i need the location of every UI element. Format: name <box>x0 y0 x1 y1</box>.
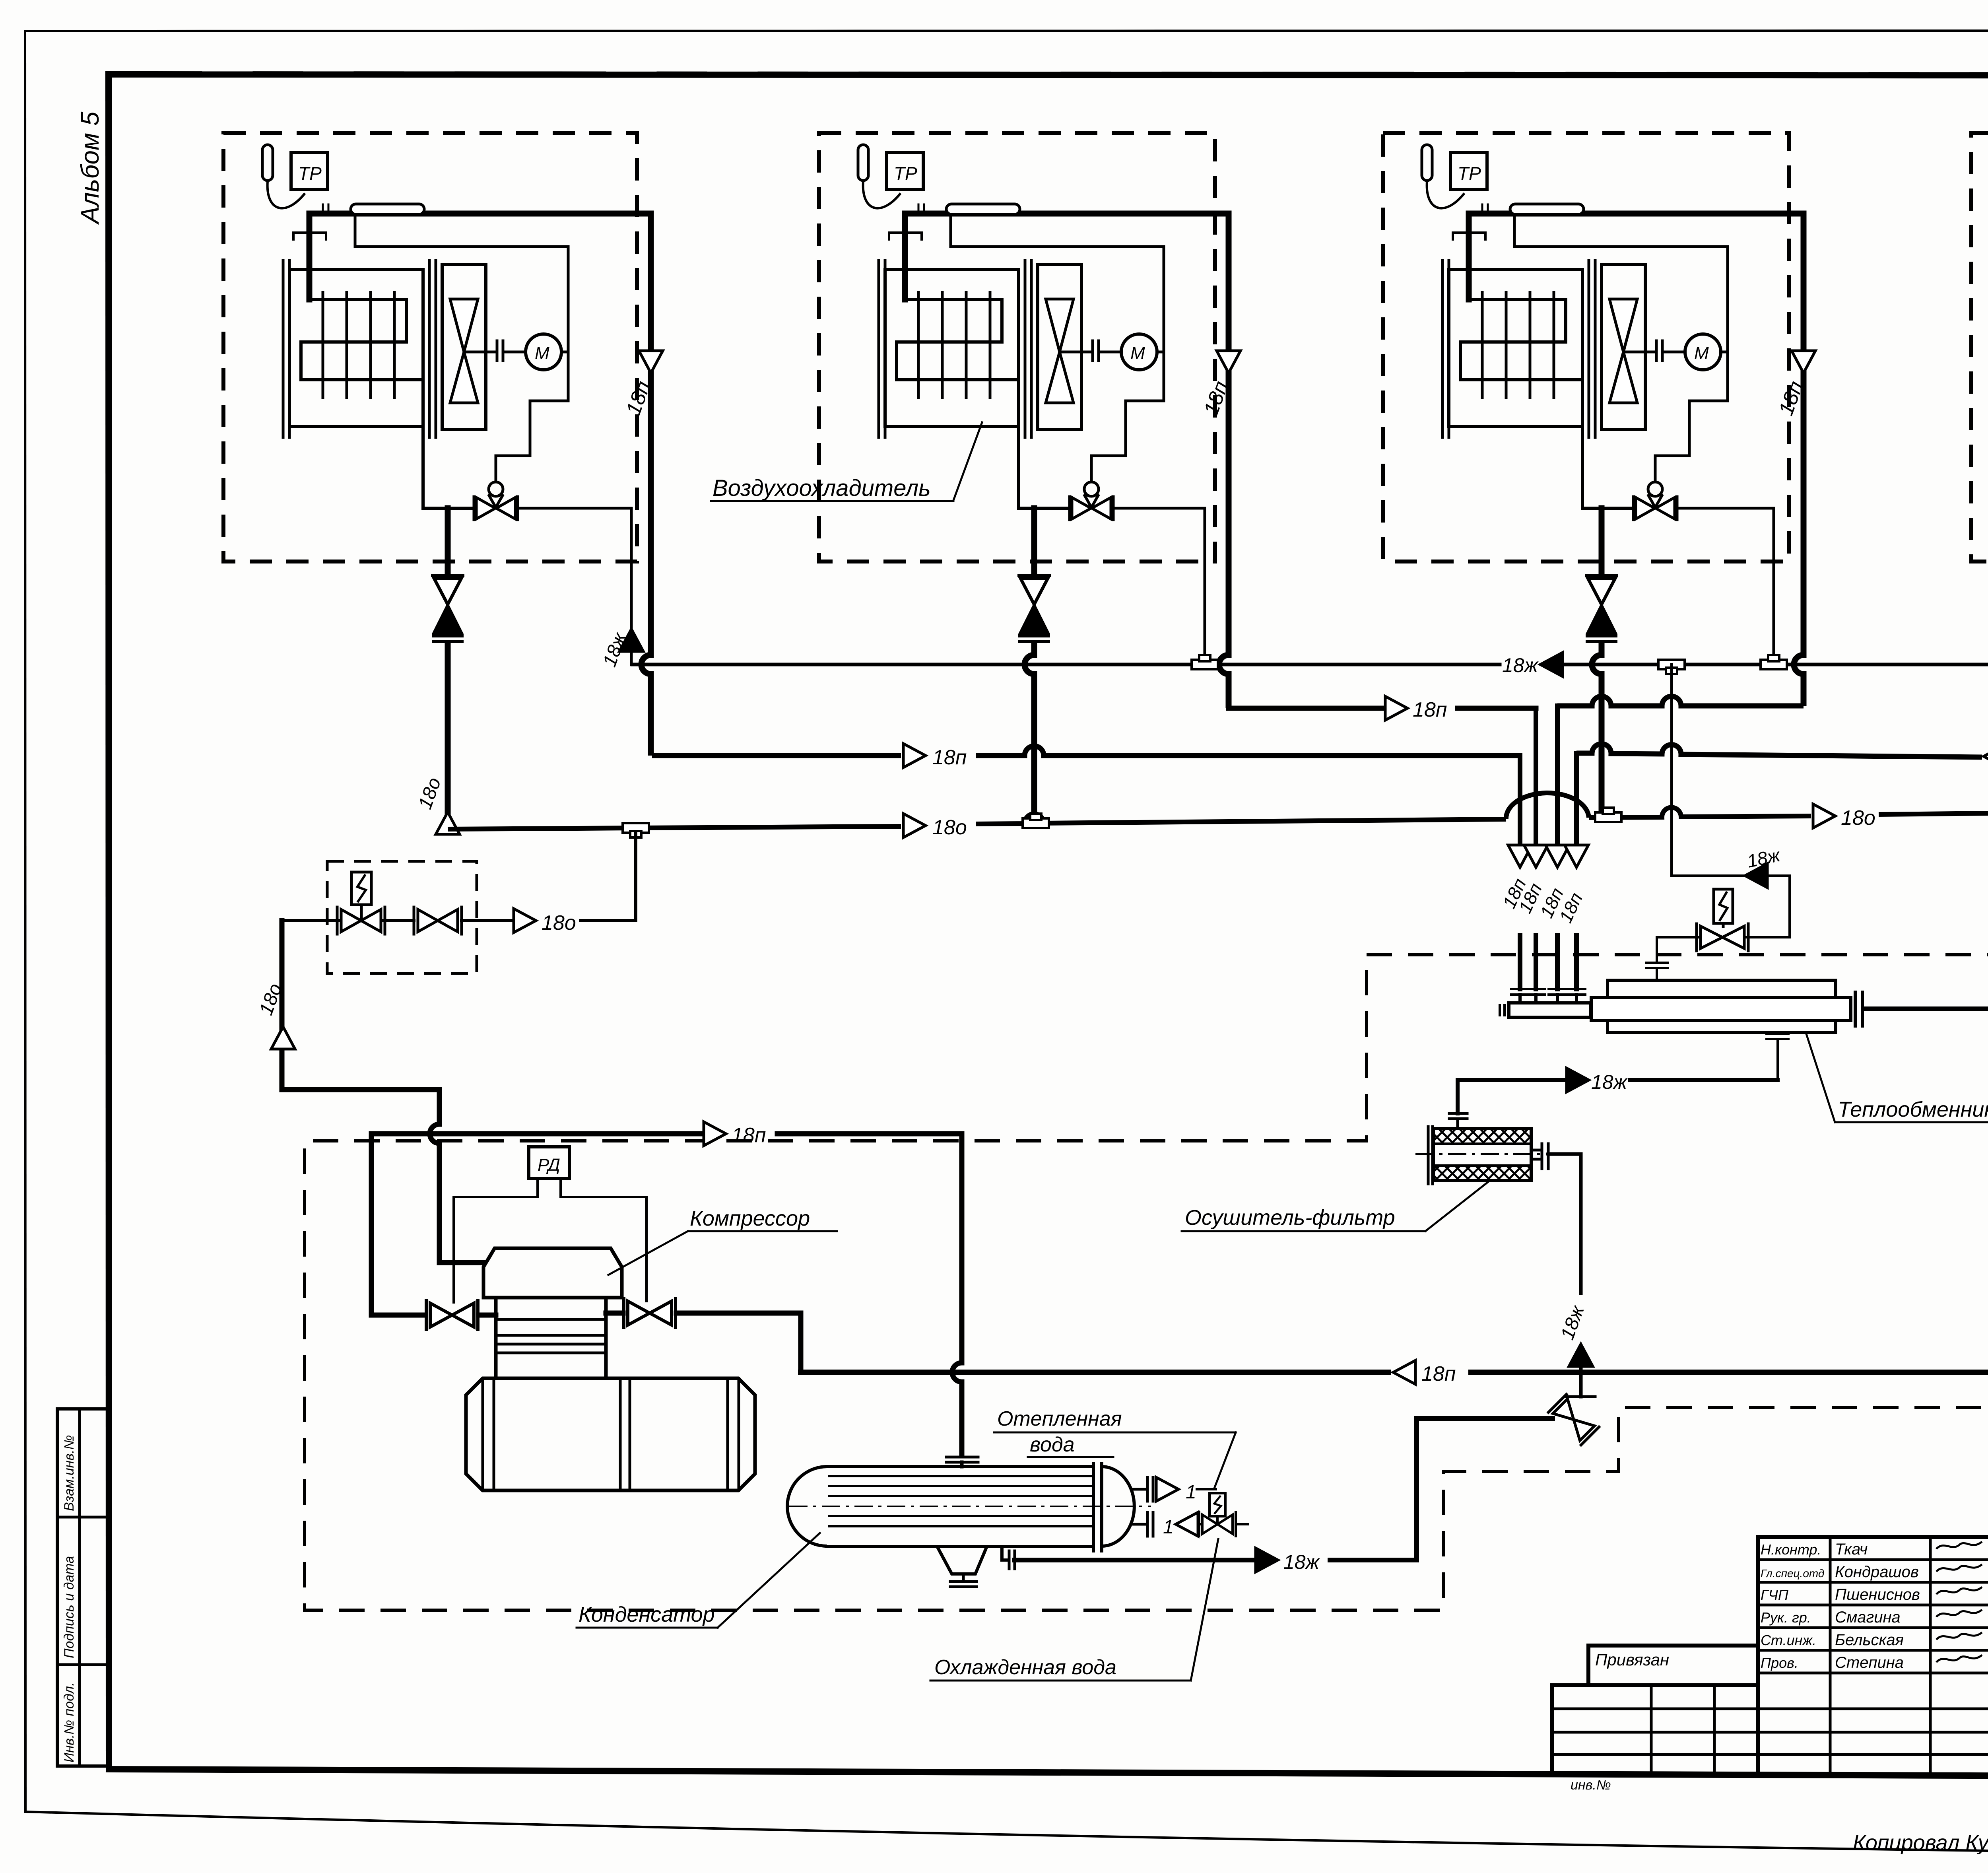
svg-text:Воздухоохладитель: Воздухоохладитель <box>712 475 931 501</box>
expansion valve TRV unit 1 <box>474 482 518 520</box>
hot gas valve group line <box>330 919 636 922</box>
heat exchanger body <box>1591 980 1851 1032</box>
thermostat bulb unit 3 <box>1422 145 1432 181</box>
label Конденсатор <box>577 1533 820 1628</box>
svg-text:18п: 18п <box>1413 698 1447 721</box>
manifold arrow 18о left <box>903 814 926 837</box>
thermostat TP box unit 2 <box>887 153 923 189</box>
coil casing right wall unit 2 <box>1025 260 1031 437</box>
stamp text Подпись и дата <box>62 1556 77 1658</box>
sensing line unit 3 <box>1655 247 1728 482</box>
label Копировал Кузнецова <box>1853 1831 1988 1855</box>
hot gas branch to HX solenoid <box>1672 664 1790 937</box>
tee fitting 18о unit 2 <box>1023 814 1049 828</box>
drop arrow 18п line 2 <box>1524 845 1548 867</box>
bulb capillary curve unit 2 <box>863 181 901 208</box>
tee fitting 18ж to heat exchanger <box>1658 660 1685 674</box>
suction main to compressor <box>801 1370 1988 1375</box>
air cooler unit 1 dashed enclosure <box>223 133 637 562</box>
compressor piping <box>371 1313 801 1372</box>
pressure switch РД <box>454 1147 646 1302</box>
coil fins unit 3 <box>1482 292 1554 398</box>
angle valve at condenser outlet <box>1548 1394 1599 1445</box>
svg-text:Взам.инв.№: Взам.инв.№ <box>62 1435 77 1511</box>
check valve unit 1 <box>433 575 463 641</box>
svg-text:Копировал Кузнецова: Копировал Кузнецова <box>1853 1831 1988 1855</box>
label 18п unit 1 <box>622 378 655 418</box>
svg-text:Ткач: Ткач <box>1835 1541 1868 1558</box>
coil casing right wall unit 1 <box>429 260 436 437</box>
label 18п unit 2 <box>1200 378 1233 418</box>
equalizer pipe unit 2 <box>951 214 1164 247</box>
svg-text:Привязан: Привязан <box>1595 1650 1669 1669</box>
machine room dashed boundary <box>305 955 1988 1610</box>
coil serpentine unit 1 <box>301 299 423 380</box>
svg-text:ТР: ТР <box>894 163 917 184</box>
svg-text:18ж: 18ж <box>1502 654 1539 676</box>
condenser tubes <box>829 1476 1093 1526</box>
fan blades unit 2 <box>1046 299 1074 403</box>
fan blades unit 1 <box>450 299 478 403</box>
svg-text:Отепленная: Отепленная <box>997 1407 1122 1430</box>
suction drop line 2 to distributor <box>1527 708 1545 1003</box>
hot gas pipe unit 1 lower (to 18о manifold) <box>445 641 451 829</box>
fan shaft and coupling unit 1 <box>464 341 526 361</box>
svg-text:Гл.спец.отд: Гл.спец.отд <box>1761 1567 1824 1580</box>
drop label 18п line 1 <box>1499 875 1530 911</box>
svg-text:18о: 18о <box>1841 806 1875 830</box>
tee fitting 18о unit 3 <box>1595 808 1621 822</box>
manifold label 18ж left <box>1502 654 1539 676</box>
condenser outlet arrow 18ж <box>1256 1548 1278 1572</box>
liquid line from condenser to filter <box>1548 1154 1581 1293</box>
liquid line filter to HX <box>1458 1080 1778 1113</box>
svg-text:18о: 18о <box>932 816 967 839</box>
coil outlet pipe unit 1 <box>423 380 474 508</box>
coil casing left wall unit 1 <box>283 260 289 437</box>
svg-text:Подпись и дата: Подпись и дата <box>62 1556 77 1658</box>
svg-text:18п: 18п <box>932 746 967 769</box>
drop label 18п line 2 <box>1514 880 1546 916</box>
svg-text:ГЧП: ГЧП <box>1761 1587 1789 1603</box>
svg-text:Смагина: Смагина <box>1835 1609 1901 1626</box>
branch arrow 18ж <box>1745 864 1767 888</box>
label Привязан <box>1595 1650 1669 1669</box>
pipe fitting tab unit 3 <box>1482 204 1584 214</box>
flow arrow 18п unit 2 <box>1217 351 1241 373</box>
label Охлажденная вода <box>930 1539 1218 1681</box>
dryer-filter right stub and flange <box>1531 1144 1548 1169</box>
distributor header <box>1500 1003 1590 1017</box>
hot gas pipe unit 3 upper <box>1599 508 1605 575</box>
label Теплообменник <box>1806 1034 1988 1122</box>
svg-text:18о: 18о <box>542 911 576 935</box>
svg-text:Теплообменник: Теплообменник <box>1838 1098 1988 1121</box>
label инв.№ <box>1571 1778 1611 1793</box>
sensing line unit 1 <box>496 247 568 482</box>
coil entry pipe unit 2 <box>902 214 908 299</box>
svg-text:ТР: ТР <box>1458 163 1481 184</box>
drop label 18п line 4 <box>1555 890 1586 926</box>
condenser liquid outlet <box>1002 1418 1553 1569</box>
suction main arrow 18п <box>1393 1360 1415 1384</box>
motor lead unit 2 <box>1157 351 1164 354</box>
expansion valve TRV unit 3 <box>1633 482 1677 520</box>
discharge label 18п <box>732 1124 766 1147</box>
coil outlet pipe unit 3 <box>1582 380 1633 508</box>
heat exchanger top nozzle <box>1646 937 1701 980</box>
suction drop line 1 to distributor <box>1511 756 1529 1003</box>
pipe clamp unit 3 <box>1453 233 1485 239</box>
svg-text:Охлажденная вода: Охлажденная вода <box>934 1656 1116 1679</box>
thermostat bulb unit 2 <box>858 145 868 181</box>
collector arrow 18п unit2 <box>1385 696 1408 720</box>
check valve unit 3 <box>1586 575 1617 641</box>
expansion valve TRV unit 2 <box>1070 482 1113 520</box>
flow arrow 18п unit 3 <box>1792 351 1815 373</box>
fan shroud unit 2 <box>1038 264 1081 429</box>
tee fitting 18ж unit 2 <box>1192 655 1218 669</box>
valve group arrow 18о <box>514 909 536 933</box>
coil serpentine unit 3 <box>1460 299 1582 380</box>
liquid label 18ж to HX <box>1591 1071 1628 1093</box>
compressor body <box>496 1298 606 1378</box>
manifold arrow 18ж left <box>1540 653 1563 676</box>
svg-text:ТР: ТР <box>298 163 322 184</box>
collector arrow 18п unit4 <box>1984 744 1988 768</box>
pipe fitting tab unit 1 <box>323 204 424 214</box>
fan shroud unit 3 <box>1602 264 1645 429</box>
coil outlet pipe unit 2 <box>1019 380 1070 508</box>
shutoff valve in valve box <box>414 907 462 934</box>
svg-text:Ст.инж.: Ст.инж. <box>1761 1632 1816 1648</box>
coil casing left wall unit 3 <box>1442 260 1449 437</box>
stamp text Взам.инв.№ <box>62 1435 77 1511</box>
compressor discharge valve <box>426 1301 478 1329</box>
heat exchanger right flange <box>1855 992 1862 1026</box>
condenser warm water outlet <box>1134 1477 1216 1503</box>
label Осушитель-фильтр <box>1182 1180 1490 1231</box>
svg-text:Альбом 5: Альбом 5 <box>76 111 104 225</box>
svg-text:18ж: 18ж <box>1283 1551 1320 1573</box>
tee fitting 18о to valve box <box>623 823 649 837</box>
svg-text:Степина: Степина <box>1835 1654 1904 1671</box>
svg-text:Конденсатор: Конденсатор <box>579 1603 715 1626</box>
label Отепленная вода <box>994 1407 1236 1487</box>
pipe fitting tab unit 2 <box>918 204 1020 214</box>
equalizer pipe unit 1 <box>355 214 568 247</box>
svg-text:вода: вода <box>1030 1433 1075 1456</box>
suction drop line 4 to distributor <box>1568 753 1585 1003</box>
evaporator coil box unit 1 <box>289 270 423 426</box>
label 18о unit 1 <box>415 775 445 812</box>
fan shaft and coupling unit 2 <box>1060 341 1121 361</box>
filter inlet stub <box>1579 1366 1583 1397</box>
valve group label 18о <box>542 911 576 935</box>
check valve unit 2 <box>1019 575 1049 641</box>
drop arrow 18п line 1 <box>1508 845 1532 867</box>
hot gas pipe unit 3 lower <box>1592 641 1602 817</box>
flow arrow 18ж unit 1 <box>619 629 643 651</box>
suction main label 18п <box>1421 1362 1456 1385</box>
filter inlet arrow 18ж <box>1569 1344 1593 1366</box>
collector arrow 18п unit1 <box>903 744 926 767</box>
thermostat TP box unit 3 <box>1450 153 1487 189</box>
tee fitting 18ж unit 3 <box>1761 655 1787 669</box>
liquid pipe 18ж unit 2 <box>1113 508 1205 664</box>
flow arrow 18о unit 1 <box>436 812 460 834</box>
coil entry pipe unit 3 <box>1466 214 1472 299</box>
manifold label 18о right <box>1841 806 1875 830</box>
sensing line unit 2 <box>1091 247 1164 482</box>
condenser outlet label 18ж <box>1283 1551 1320 1573</box>
manifold label 18о left <box>932 816 967 839</box>
evaporator coil box unit 3 <box>1449 270 1582 426</box>
fan motor M unit 3 <box>1685 334 1721 370</box>
equalizer pipe unit 3 <box>1514 214 1728 247</box>
svg-text:Рук. гр.: Рук. гр. <box>1761 1609 1811 1626</box>
svg-text:М: М <box>1130 344 1145 363</box>
thermostat bulb unit 1 <box>262 145 273 181</box>
coil casing right wall unit 3 <box>1589 260 1595 437</box>
label 18п unit 3 <box>1774 378 1808 418</box>
discharge line 18п <box>371 1134 962 1457</box>
hot gas pipe unit 2 lower <box>1025 641 1034 823</box>
hot gas pipe from compressor discharge <box>282 921 483 1263</box>
dryer-filter left flange <box>1428 1127 1433 1184</box>
coil serpentine unit 2 <box>897 299 1019 380</box>
drop arrow 18п line 3 <box>1545 845 1569 867</box>
valve box dashed enclosure <box>327 861 477 973</box>
label Компрессор <box>608 1207 837 1275</box>
bulb capillary curve unit 1 <box>268 181 305 208</box>
collector label 18п unit1 <box>932 746 967 769</box>
svg-text:Осушитель-фильтр: Осушитель-фильтр <box>1185 1206 1395 1230</box>
svg-text:18ж: 18ж <box>1591 1071 1628 1093</box>
svg-text:М: М <box>535 344 549 363</box>
drop label 18п line 3 <box>1536 885 1567 921</box>
suction line unit 3 collector (18п) <box>1557 696 1804 706</box>
coil entry pipe unit 1 <box>307 214 313 299</box>
hot gas pipe unit 1 upper <box>445 508 451 575</box>
fan shroud unit 1 <box>442 264 486 429</box>
svg-text:РД: РД <box>538 1155 560 1175</box>
condenser oil sump <box>937 1547 987 1587</box>
svg-text:1: 1 <box>1163 1517 1174 1538</box>
dryer-filter top nozzle <box>1449 1113 1467 1129</box>
riser label 18о <box>256 981 286 1018</box>
branch label 18ж <box>1745 844 1782 872</box>
fan motor M unit 1 <box>526 334 561 370</box>
svg-text:Бельская: Бельская <box>1835 1631 1904 1649</box>
fan motor M unit 2 <box>1121 334 1157 370</box>
hot gas manifold 18о <box>448 793 1988 829</box>
compressor top dome <box>483 1248 622 1298</box>
discharge arrow 18п <box>704 1122 726 1146</box>
album label (rotated) <box>76 111 104 225</box>
suction pipe 18п unit 3 (top header) <box>1469 214 1804 706</box>
label Воздухоохладитель <box>711 422 982 501</box>
condenser top flange <box>946 1457 978 1467</box>
thermostat TP box unit 1 <box>291 153 328 189</box>
svg-text:18п: 18п <box>732 1124 766 1147</box>
hot gas pipe unit 2 upper <box>1031 508 1037 575</box>
fan shaft and coupling unit 3 <box>1623 341 1685 361</box>
condenser centerline <box>789 1506 1151 1507</box>
liquid arrow 18ж to HX <box>1567 1068 1589 1092</box>
svg-text:Пров.: Пров. <box>1761 1655 1798 1671</box>
dryer-filter centerline <box>1415 1153 1551 1155</box>
suction drop line 3 to distributor <box>1549 706 1566 1003</box>
svg-text:Компрессор: Компрессор <box>690 1207 810 1230</box>
svg-text:1: 1 <box>1186 1482 1196 1503</box>
title block signatures <box>1761 1541 1988 1671</box>
label 18ж unit 1 <box>599 630 631 670</box>
solenoid valve in valve box <box>337 872 385 934</box>
suction outlet pipe from HX <box>1865 1009 1988 1372</box>
coil fins unit 2 <box>918 292 990 398</box>
suction pipe 18п unit 2 (top header) <box>905 214 1229 708</box>
compressor base receiver <box>466 1378 755 1490</box>
solenoid valve at heat exchanger <box>1697 889 1748 951</box>
hot gas riser to manifold <box>634 833 637 921</box>
suction line unit 2 collector (18п) <box>1229 706 1536 711</box>
svg-text:Н.контр.: Н.контр. <box>1761 1541 1821 1558</box>
liquid pipe 18ж unit 3 <box>1677 508 1774 664</box>
suction pipe 18п unit 1 (top header) <box>309 214 651 756</box>
air cooler unit 3 dashed enclosure <box>1383 133 1789 562</box>
heat exchanger bottom nozzle <box>1767 1034 1788 1080</box>
dryer-filter body <box>1433 1129 1531 1181</box>
svg-text:Пшениснов: Пшениснов <box>1835 1586 1920 1603</box>
stamp text Инв.№ подл. <box>62 1682 77 1762</box>
svg-text:Инв.№ подл.: Инв.№ подл. <box>62 1682 77 1762</box>
liquid pipe 18ж unit 1 <box>518 508 631 664</box>
pipe clamp unit 1 <box>293 233 326 239</box>
fan blades unit 3 <box>1609 299 1637 403</box>
flow arrow 18п unit 1 <box>639 351 663 373</box>
collector label 18п unit2 <box>1413 698 1447 721</box>
motor lead unit 1 <box>561 351 568 354</box>
manifold arrow 18о right <box>1813 804 1835 828</box>
evaporator coil box unit 2 <box>885 270 1019 426</box>
pipe clamp unit 2 <box>889 233 922 239</box>
motor lead unit 3 <box>1721 351 1728 354</box>
svg-text:18п: 18п <box>1421 1362 1456 1385</box>
compressor suction valve <box>624 1299 676 1327</box>
liquid manifold 18ж <box>632 663 1988 666</box>
drop arrow 18п line 4 <box>1565 845 1588 867</box>
suction line unit 4 collector (18п) <box>1576 744 1988 762</box>
left stamp column boxes <box>57 1409 109 1766</box>
bulb capillary curve unit 3 <box>1427 181 1464 208</box>
coil casing left wall unit 2 <box>879 260 885 437</box>
svg-text:инв.№: инв.№ <box>1571 1778 1611 1793</box>
condenser shell <box>787 1463 1134 1551</box>
coil fins unit 1 <box>323 292 394 398</box>
filter inlet label 18ж <box>1557 1302 1589 1343</box>
title block grid <box>1552 1537 1988 1777</box>
suction line unit 1 collector (18п) <box>652 746 1520 756</box>
air cooler unit 4 dashed enclosure <box>1971 133 1988 562</box>
svg-text:М: М <box>1694 344 1709 363</box>
svg-text:Кондрашов: Кондрашов <box>1835 1563 1919 1581</box>
riser arrow 18о <box>271 1027 295 1049</box>
condenser cooled water inlet <box>1134 1493 1248 1538</box>
air cooler unit 2 dashed enclosure <box>819 133 1215 562</box>
